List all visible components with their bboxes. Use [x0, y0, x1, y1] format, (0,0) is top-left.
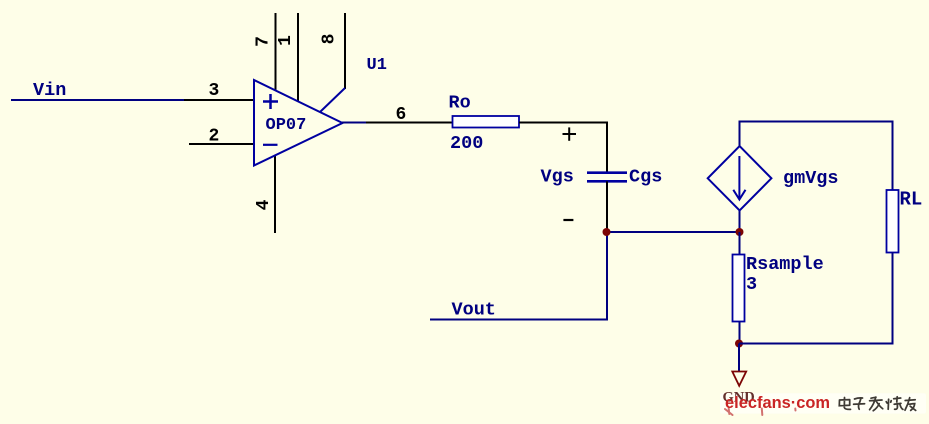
wire Vin net — [11, 99, 185, 101]
wire pin 3 stub — [184, 99, 255, 101]
wire cap bottom pin — [606, 181, 608, 232]
svg-text:Cgs: Cgs — [629, 167, 662, 188]
op-amp plus input mark — [263, 94, 278, 109]
wire diamond bottom to junction — [739, 210, 741, 232]
svg-text:2: 2 — [209, 127, 220, 147]
wire junction horizontal — [606, 231, 740, 233]
svg-text:RL: RL — [900, 189, 923, 211]
wire pin 6 stub blue — [342, 122, 367, 124]
wire Vout vertical — [606, 231, 608, 320]
svg-text:8: 8 — [319, 34, 339, 45]
hanzi zi — [854, 398, 865, 409]
watermark hanzi 电子发烧友 — [839, 397, 915, 411]
wire pin 4 — [274, 155, 276, 233]
hanzi you — [905, 398, 916, 411]
resistor RL — [887, 190, 899, 253]
op-amp U1 body — [254, 80, 343, 166]
hanzi shao — [886, 397, 903, 410]
plus mark near Cgs — [563, 127, 577, 140]
wire pin 2 stub — [189, 143, 255, 145]
ground symbol — [732, 372, 746, 386]
junction node bottom — [735, 340, 743, 348]
wire pin 1 — [297, 13, 299, 102]
hanzi fa — [870, 397, 883, 411]
resistor Ro — [453, 116, 520, 128]
svg-text:Vout: Vout — [452, 300, 496, 321]
svg-text:4: 4 — [254, 199, 274, 210]
wire Rsample bottom — [739, 322, 741, 344]
watermark red drip marks — [725, 409, 796, 416]
capacitor Cgs plates — [587, 173, 627, 182]
svg-text:gmVgs: gmVgs — [783, 168, 839, 189]
wire bottom rail to RL — [739, 253, 893, 344]
svg-text:3: 3 — [746, 274, 757, 295]
wire junction to Rsample — [739, 232, 741, 255]
wire pin 8 — [344, 13, 346, 89]
current source arrow — [733, 156, 745, 200]
svg-text:Vin: Vin — [33, 80, 66, 101]
svg-text:elecfans·com: elecfans·com — [725, 393, 830, 412]
svg-text:Vgs: Vgs — [541, 167, 574, 188]
wire diamond top — [740, 122, 893, 191]
svg-text:7: 7 — [253, 36, 273, 47]
svg-text:6: 6 — [396, 105, 407, 125]
wire Ro to corner — [519, 123, 607, 173]
minus mark near Cgs — [563, 219, 573, 221]
svg-text:200: 200 — [450, 133, 483, 154]
junction node mid — [736, 228, 744, 236]
svg-text:1: 1 — [276, 35, 296, 46]
op-amp minus input mark — [263, 144, 278, 146]
watermark backing — [720, 393, 926, 413]
svg-text:3: 3 — [209, 81, 220, 101]
wire to ground — [738, 344, 740, 372]
wire pin 6 black — [366, 122, 453, 124]
junction node left — [603, 228, 611, 236]
op-amp U1 pin8 bend — [320, 88, 345, 112]
resistor Rsample — [733, 255, 745, 322]
wire pin 7 — [275, 13, 277, 91]
current source gmVgs diamond — [708, 146, 772, 210]
svg-text:U1: U1 — [367, 56, 387, 75]
svg-text:Ro: Ro — [449, 93, 471, 114]
svg-text:OP07: OP07 — [266, 116, 307, 135]
hanzi dian — [839, 398, 850, 410]
wire Vout horizontal — [430, 319, 608, 321]
svg-text:Rsample: Rsample — [746, 254, 824, 275]
